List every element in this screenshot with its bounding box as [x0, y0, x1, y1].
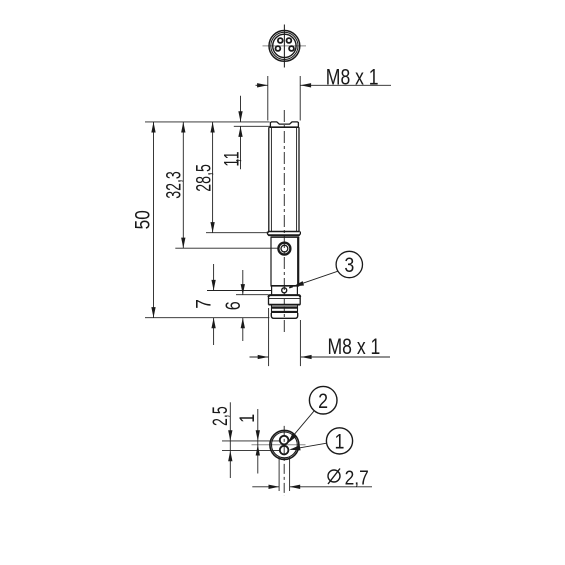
svg-text:32,3: 32,3: [161, 171, 185, 199]
svg-text:1: 1: [335, 430, 345, 454]
svg-text:28,5: 28,5: [192, 164, 216, 192]
svg-text:M8 x 1: M8 x 1: [328, 335, 381, 359]
svg-text:2: 2: [318, 390, 328, 414]
svg-text:2,7: 2,7: [345, 466, 369, 488]
svg-text:7: 7: [192, 299, 216, 309]
svg-text:3: 3: [344, 254, 354, 278]
svg-text:6: 6: [222, 301, 246, 310]
svg-text:M8 x 1: M8 x 1: [326, 66, 379, 90]
svg-text:50: 50: [131, 210, 155, 229]
svg-text:1: 1: [236, 414, 260, 423]
svg-text:2,5: 2,5: [208, 406, 232, 426]
svg-text:1: 1: [220, 151, 244, 159]
